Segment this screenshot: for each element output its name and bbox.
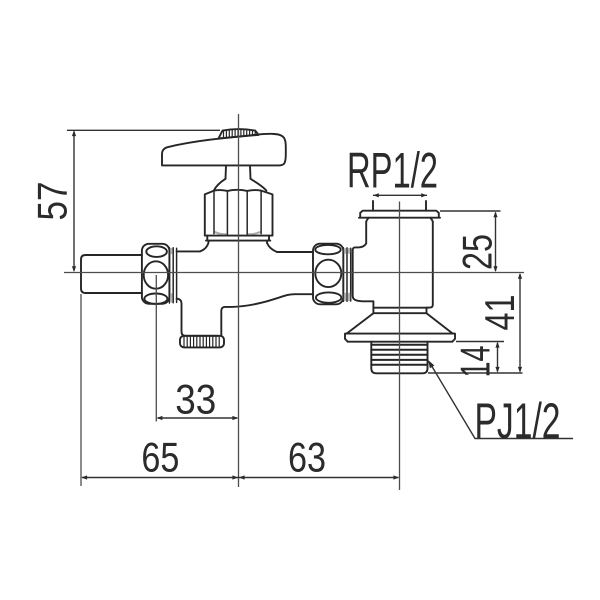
outlet trapezoid skirt: [347, 313, 453, 333]
25 dimension line: [495, 213, 497, 272]
handle stem: [226, 165, 251, 178]
handle wheel: [162, 134, 286, 166]
outlet flange band: [345, 334, 455, 342]
body neck below bonnet: [200, 241, 277, 252]
left union collar: [169, 248, 176, 303]
svg-text:25: 25: [454, 234, 501, 270]
svg-text:33: 33: [175, 375, 216, 422]
41 dimension line: [519, 274, 521, 372]
65 63 dimension line: [82, 477, 398, 479]
column vertical axis: [399, 202, 401, 491]
column top fillets: [366, 218, 433, 222]
svg-text:63: 63: [288, 433, 326, 480]
25 arrows: [493, 212, 497, 218]
column neck rings: [373, 308, 428, 314]
left inlet pipe: [81, 255, 142, 293]
PJ male thread: [371, 342, 427, 374]
body top edge left section: [177, 250, 200, 252]
body bottom edge and drain pocket: [177, 294, 313, 336]
drain cap knurled: [180, 336, 224, 348]
right union collar: [343, 248, 350, 302]
RP dimension line: [373, 194, 427, 196]
dimension texts: [29, 182, 524, 481]
14 arrows: [495, 342, 499, 348]
centerlines: [64, 114, 524, 490]
57 arrows: [72, 130, 76, 136]
main horizontal axis: [64, 272, 524, 274]
svg-text:PJ1/2: PJ1/2: [475, 393, 561, 449]
column top flange: [359, 211, 440, 218]
handle cap knurled: [219, 129, 259, 138]
svg-text:14: 14: [452, 346, 499, 378]
svg-text:65: 65: [141, 433, 179, 480]
14 extension top: [456, 341, 504, 343]
column right edge: [427, 222, 433, 313]
65 arrows: [81, 475, 87, 479]
arrowheads: [72, 130, 522, 479]
svg-text:41: 41: [476, 295, 523, 331]
RP thread stub lines: [373, 201, 426, 211]
body to column connector: [353, 222, 374, 313]
bonnet nut: [205, 190, 273, 236]
PJ leader arrow: [428, 360, 434, 368]
bottom right extension: [428, 372, 523, 374]
57 extension top: [67, 129, 220, 131]
right union nut: [313, 244, 343, 305]
63 arrows: [239, 475, 245, 479]
41 arrows: [518, 273, 522, 279]
handle vertical axis: [238, 114, 240, 487]
57 dimension line: [73, 132, 75, 271]
33 dimension line: [158, 417, 238, 419]
svg-text:57: 57: [29, 182, 76, 221]
stem skirt: [214, 179, 267, 191]
25 extension top: [440, 210, 501, 212]
14 dimension line: [497, 343, 499, 372]
left union nut: [142, 244, 170, 304]
bonnet washer: [206, 236, 270, 241]
left union axis extension 33: [155, 275, 157, 422]
body top edge right section: [277, 251, 313, 253]
svg-text:RP1/2: RP1/2: [347, 143, 438, 199]
dimension lines: [67, 130, 573, 477]
33 arrows: [157, 416, 163, 420]
PJ leader line: [429, 362, 573, 439]
left pipe end extension 65: [80, 294, 82, 486]
RP arrows: [373, 193, 379, 197]
